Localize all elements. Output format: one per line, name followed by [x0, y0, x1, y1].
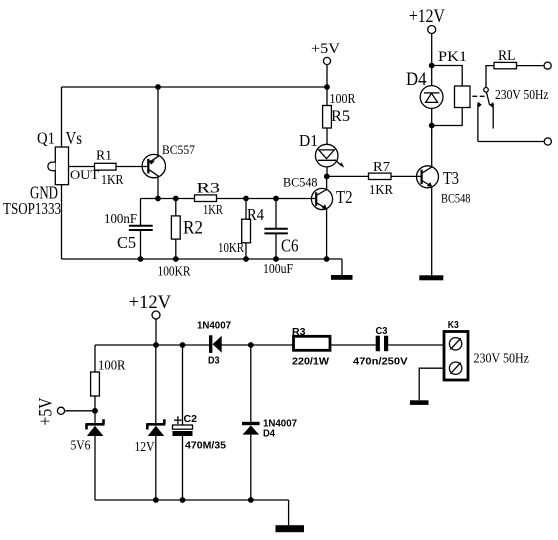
wire top +5V rail: [62, 86, 328, 88]
svg-text:12V: 12V: [135, 440, 155, 455]
resistor R1 body: [95, 163, 117, 170]
diode D4 1N4007 (bottom): [242, 422, 260, 435]
node R4 bottom: [243, 256, 249, 262]
wire BC557 emitter up to +5V rail: [157, 87, 159, 156]
svg-text:PK1: PK1: [438, 49, 467, 65]
node C6 top: [273, 196, 279, 202]
terminal +12V (bottom section): [152, 311, 160, 319]
node C2 top: [180, 342, 186, 348]
node D1 / T2 collector / R7: [324, 174, 330, 180]
node T2 emitter rail: [324, 256, 330, 262]
svg-text:K3: K3: [448, 319, 459, 331]
contact blade: [486, 92, 489, 105]
svg-text:BC548: BC548: [283, 176, 318, 190]
svg-text:OUT: OUT: [70, 168, 99, 182]
svg-text:TSOP1333: TSOP1333: [3, 199, 61, 218]
LED D4: [420, 86, 443, 109]
wire K3 lower terminal to ground: [419, 368, 444, 400]
wire ground drop (bottom): [288, 500, 290, 525]
node C2 bottom: [180, 497, 186, 503]
wire rail D3 to R3: [222, 344, 294, 346]
node +12V / PK1: [429, 63, 435, 69]
svg-text:+5V: +5V: [37, 397, 57, 426]
node D4 bottom: [248, 497, 254, 503]
wire R4 lower: [245, 243, 247, 259]
ground (main, top section): [331, 275, 353, 280]
contact arrow left: [478, 102, 482, 108]
capacitor C2 (electrolytic) plates: [173, 425, 193, 436]
svg-text:D1: D1: [299, 131, 318, 150]
wire T2 collector up: [326, 176, 328, 190]
wire T3 collector up: [431, 126, 433, 168]
node D4 branch top: [248, 342, 254, 348]
wire left rail upper: [61, 87, 63, 147]
wire RL to terminal: [517, 65, 545, 67]
svg-text:R7: R7: [373, 159, 390, 174]
wire 12V anode down: [155, 436, 157, 500]
wire R3 to C3: [331, 344, 376, 346]
wire 12V zener branch upper: [155, 345, 157, 423]
junction dots (top section): [138, 63, 435, 262]
transistor T3 BC548: [417, 166, 439, 188]
resistor R4 body: [242, 219, 251, 243]
capacitor C6 plates: [264, 228, 287, 230]
node C6 bottom: [273, 256, 279, 262]
svg-text:470M/35: 470M/35: [185, 440, 226, 452]
terminal +5V (top): [323, 57, 330, 64]
contact stem right: [492, 104, 494, 129]
svg-text:C3: C3: [376, 325, 388, 337]
Q1 lens bump: [48, 162, 55, 171]
node C5 bottom: [138, 256, 144, 262]
svg-text:D4: D4: [406, 69, 427, 90]
wire C2 branch upper: [182, 345, 184, 425]
transistor T2 BC548: [311, 188, 332, 209]
node R4 top: [243, 196, 249, 202]
diode D3 1N4007: [209, 335, 222, 353]
svg-text:R1: R1: [96, 149, 112, 164]
wire OUT pin to R1: [69, 166, 95, 168]
wire D4 down to node: [431, 108, 433, 125]
relay coil PK1: [455, 86, 471, 108]
wire node to R7: [327, 175, 369, 177]
node +5V / R5: [324, 84, 330, 90]
wire contact bottom to terminal: [478, 141, 544, 143]
svg-text:1KR: 1KR: [369, 182, 393, 197]
svg-text:100R: 100R: [98, 359, 126, 374]
svg-text:R2: R2: [183, 219, 203, 239]
svg-text:100R: 100R: [330, 91, 356, 106]
svg-text:R3: R3: [292, 326, 306, 338]
wire node line (left part): [141, 198, 195, 200]
contact stem left: [477, 104, 479, 142]
ground (K3): [410, 400, 429, 405]
svg-text:T3: T3: [443, 168, 459, 188]
wire R5 to D1: [326, 128, 328, 144]
terminal contact bottom right: [544, 138, 551, 145]
zener 12V: [146, 419, 165, 436]
svg-text:1N4007: 1N4007: [197, 320, 231, 332]
zener 5V6: [86, 419, 105, 436]
wire R2 branch upper: [175, 199, 177, 216]
wire left rail lower (GND pin down): [61, 185, 63, 259]
svg-text:100nF: 100nF: [104, 211, 137, 226]
svg-text:C2: C2: [184, 413, 198, 425]
svg-text:T2: T2: [336, 187, 353, 207]
svg-text:R3: R3: [197, 181, 221, 197]
relay contact pivot: [484, 88, 489, 93]
wire 100R to +5V node: [94, 396, 96, 423]
node D4 / coil bottom: [429, 123, 435, 129]
node +12V rail in: [153, 342, 159, 348]
svg-text:+12V: +12V: [409, 6, 445, 27]
wire T3 emitter down to ground: [431, 187, 433, 276]
wire +12V down: [431, 34, 433, 66]
wire C5 lower: [140, 230, 142, 259]
wire T2 emitter down: [326, 209, 328, 259]
wire +5V terminal down: [326, 65, 328, 87]
node R2 top: [173, 196, 179, 202]
wire C6 branch upper: [275, 199, 277, 229]
wire 5V6 anode down: [94, 436, 96, 500]
svg-text:100KR: 100KR: [158, 265, 192, 280]
dashed link coil to contact: [472, 95, 484, 97]
wire D4 branch upper: [250, 345, 252, 422]
svg-text:470n/250V: 470n/250V: [353, 356, 408, 368]
wire BC557 collector down to node: [157, 176, 159, 198]
node 12V bottom: [153, 497, 159, 503]
wire node line (right part) to T2 base: [217, 198, 317, 200]
svg-text:+12V: +12V: [129, 293, 172, 313]
wire +12V node to relay coil top: [432, 66, 463, 87]
svg-text:BC548: BC548: [441, 192, 471, 206]
wire R7 to T3 base: [391, 175, 422, 177]
svg-text:R4: R4: [247, 205, 264, 224]
resistor R7 body: [369, 173, 392, 179]
wire left drop to 100R: [94, 345, 96, 372]
svg-text:230V 50Hz: 230V 50Hz: [474, 352, 530, 367]
wire D1 to node: [326, 167, 328, 177]
wire ground drop: [341, 259, 343, 276]
contact arrow right: [489, 102, 493, 108]
svg-text:D4: D4: [263, 428, 275, 440]
wire C6 lower: [275, 233, 277, 259]
ground (bottom section): [276, 525, 305, 532]
svg-text:C6: C6: [281, 236, 299, 256]
node R2 bottom: [173, 256, 179, 262]
wire +5V rail to R5: [326, 87, 328, 106]
resistor RL body: [494, 62, 517, 68]
terminal +12V (top): [428, 26, 436, 34]
wire bottom-section ground rail: [95, 499, 289, 501]
LED D1: [315, 144, 344, 167]
wire node to D4: [431, 66, 433, 86]
wire relay coil bottom to node: [432, 108, 463, 126]
svg-text:Vs: Vs: [66, 128, 83, 148]
wire C2 lower: [182, 436, 184, 500]
svg-text:BC557: BC557: [162, 142, 195, 157]
svg-text:1KR: 1KR: [203, 202, 223, 217]
resistor R3 220/1W body: [294, 336, 331, 350]
svg-text:230V 50Hz: 230V 50Hz: [495, 87, 549, 102]
wire pivot up to RL: [486, 66, 494, 88]
svg-text:10KR: 10KR: [218, 241, 245, 256]
capacitor C5 plates: [129, 225, 153, 227]
wire R1 to BC557 base: [116, 166, 148, 168]
terminal RL right: [544, 62, 551, 69]
wire +12V terminal down to rail: [155, 319, 157, 345]
ground (T3 emitter): [419, 275, 443, 280]
capacitor C3 plates: [376, 336, 389, 352]
svg-text:+5V: +5V: [311, 41, 340, 57]
svg-text:D3: D3: [208, 355, 220, 367]
svg-text:1KR: 1KR: [101, 173, 124, 188]
wire R4 branch upper: [245, 199, 247, 220]
svg-text:Q1: Q1: [37, 129, 55, 148]
svg-text:R5: R5: [331, 108, 350, 125]
svg-text:C5: C5: [117, 233, 136, 252]
node BC557 emitter / +5V rail: [155, 84, 161, 90]
wire +5V terminal to node: [65, 410, 95, 412]
wire C3 to K3: [388, 344, 443, 346]
terminal +5V (bottom): [57, 407, 64, 414]
resistor R3 body (top section): [195, 195, 217, 202]
node 100R / +5V: [92, 408, 98, 414]
wire D4 anode down: [250, 435, 252, 500]
resistor R5 body: [323, 106, 332, 129]
junction dots (bottom section): [92, 342, 254, 503]
resistor R2 body: [171, 216, 180, 239]
svg-text:5V6: 5V6: [71, 439, 91, 454]
resistor 100R body (bottom): [91, 372, 100, 396]
capacitor C5 branch wire upper: [140, 199, 142, 226]
svg-text:220/1W: 220/1W: [292, 356, 329, 368]
wire bottom ground rail (top section): [62, 258, 343, 260]
label + (C2 polarity): [174, 416, 182, 424]
wire bottom-section top rail: [95, 344, 209, 346]
wire R2 lower: [175, 239, 177, 259]
transistor BC557: [142, 154, 165, 177]
svg-text:100uF: 100uF: [263, 261, 293, 276]
connector K3: [444, 332, 468, 381]
svg-text:RL: RL: [498, 48, 516, 64]
node BC557 collector: [155, 196, 161, 202]
IR receiver Q1 TSOP1333 body: [55, 147, 68, 185]
